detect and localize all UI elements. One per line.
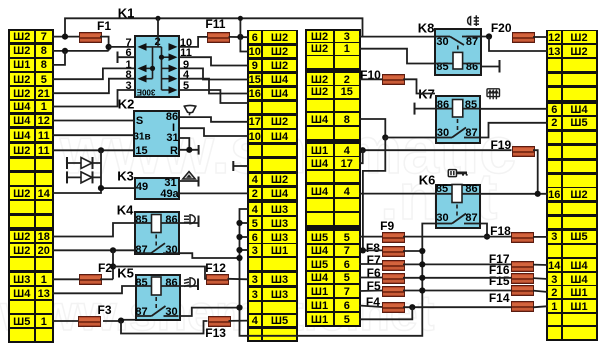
wire K1 pin6 stub <box>118 56 135 58</box>
relay K2 label <box>118 97 135 112</box>
fuse F14 <box>511 301 534 312</box>
Ш-mid-right row pin Ш1 4 <box>307 144 333 156</box>
relay K3 box <box>134 177 180 201</box>
Ш-right row pin 2 Ш1 <box>548 286 561 298</box>
fuse F12 label <box>205 261 226 275</box>
wire K7-85 to 6Ш4 <box>481 108 548 110</box>
K1 pin label 3 <box>125 80 131 92</box>
fuse F15 label <box>489 274 510 288</box>
junction riser/F7 <box>419 261 425 267</box>
wire K5-87 feed <box>121 319 136 321</box>
Ш-left row pin Ш4 13 <box>10 287 34 299</box>
diode D2 <box>67 171 101 183</box>
Ш-mid-left row pin 9 Ш2 <box>249 60 262 72</box>
Ш-mid-right row pin Ш4 17 <box>307 157 333 169</box>
wire F14 out to 1Ш1 <box>533 306 548 307</box>
junction rail/F11 <box>238 16 243 21</box>
relay K7 coil <box>453 100 463 118</box>
Ш-left row pin Ш5 1 <box>10 315 34 327</box>
fuse F4 label <box>366 295 380 309</box>
wire Ш2-20 K4-87 wire <box>52 249 134 251</box>
wire Ш3-1 to F2 <box>52 278 79 280</box>
junction F11 node <box>237 34 243 40</box>
Ш-right row empty cell <box>548 175 561 187</box>
relay K1 box <box>134 35 180 98</box>
junction K1 left bus <box>150 66 155 71</box>
relay K6 label <box>419 173 436 188</box>
K5 pin label 87 <box>135 306 147 318</box>
wire F8 out <box>403 250 422 252</box>
wire Ш4-7 to F8 <box>359 249 382 251</box>
icon parking lights (K8) <box>468 15 479 26</box>
fuse F18 <box>511 232 534 243</box>
fuse F19 <box>512 146 535 157</box>
K7 pin label 86 <box>437 99 449 111</box>
Ш-left row pin Ш3 1 <box>10 273 34 285</box>
relay K6 box <box>435 184 481 229</box>
Ш-right row empty cell <box>548 245 561 257</box>
junction F12 feed node <box>110 263 116 269</box>
K2 pin label 15 <box>135 145 147 157</box>
Ш-left row pin Ш2 5 <box>10 73 34 85</box>
Ш-mid-right row empty cell <box>307 56 333 68</box>
wire K1-4 to 16Ш4 <box>180 79 249 94</box>
wire K2-31 down <box>180 138 189 150</box>
fuse F10 label <box>360 68 381 82</box>
Ш-mid-right row pin Ш5 5 <box>307 231 333 243</box>
wire F19 out <box>533 150 538 194</box>
K1 pin label 10 <box>180 37 192 49</box>
relay K8 coil <box>453 52 463 69</box>
wire F9 out to F18 <box>403 236 511 238</box>
Ш-mid-left row pin 6 Ш2 <box>249 31 262 43</box>
stub 4Ш2 row terminator <box>233 165 248 167</box>
terminator K1-6 stub <box>117 52 119 64</box>
Ш-mid-right row empty cell <box>307 199 333 211</box>
wire Ш2-14 to K3-49 <box>52 188 134 193</box>
wire Ш2-8 wire <box>52 50 109 52</box>
relay K5 coil-contact link <box>155 297 157 311</box>
relay K5 coil <box>152 277 162 295</box>
fuse F16 <box>511 273 534 284</box>
Ш-mid-left row pin 4 Ш3 <box>249 203 262 215</box>
wire bus tap 6Ш3 <box>240 236 249 238</box>
K4 pin label 85 <box>135 214 147 226</box>
diode bus vertical <box>100 150 102 188</box>
K4 pin label 86 <box>165 214 177 226</box>
terminator K8-86 terminator <box>499 60 501 73</box>
K2 pin label I <box>172 122 175 134</box>
wire K7-30 riser down <box>363 138 385 251</box>
terminator K5-86 terminator <box>197 279 199 291</box>
wire Ш2-1 to K8-85 <box>359 49 434 64</box>
relay K6 coil-contact link <box>456 205 458 217</box>
Ш-mid-left row pin 4 Ш5 <box>249 315 262 327</box>
junction riser/F6 <box>419 275 425 281</box>
wire Ш4-5 to F6 <box>359 277 382 279</box>
wire bus tap 5Ш3 <box>240 222 249 224</box>
Ш-left row empty cell <box>10 216 34 228</box>
Ш-left row empty cell <box>10 258 34 270</box>
Ш-mid-left row empty cell <box>249 258 262 270</box>
K1 pin label 4 <box>183 69 189 81</box>
Ш-right row empty cell <box>548 146 561 158</box>
K3 pin label 31 <box>164 177 176 189</box>
Ш-mid-left row pin 15 Ш4 <box>249 74 262 86</box>
wire F20 node to 13Ш2 <box>489 37 548 52</box>
fuse F1 <box>79 32 102 43</box>
wire K1-9 to 15Ш4 <box>180 68 249 79</box>
wire F13 out to 4Ш5 <box>229 320 249 322</box>
wire Ш2-21 to K1-8 <box>52 79 134 94</box>
junction K4-87/F2 node <box>110 247 116 253</box>
terminator K2 R terminator <box>198 145 200 155</box>
K7 pin label 30 <box>437 127 449 139</box>
Ш-left row pin Ш4 12 <box>10 115 34 127</box>
relay K6 coil <box>452 185 462 203</box>
K8 pin label 87 <box>466 36 478 48</box>
Ш-mid-right row pin Ш2 1 <box>307 43 333 55</box>
wire F5 out to F15 <box>403 290 511 292</box>
K3 pin label 49 <box>136 181 148 193</box>
fuse F2 <box>79 274 102 285</box>
icon wiper (K2) <box>184 105 196 115</box>
K5 pin label 85 <box>135 277 147 289</box>
Ш-mid-left row empty cell <box>249 329 262 341</box>
Ш-mid-right row empty cell <box>307 213 333 225</box>
junction riser/F5 <box>419 287 425 293</box>
junction Ш1-4 node <box>360 147 366 153</box>
wire F1 out to K1-7 <box>100 37 109 51</box>
junction diode bus bottom <box>98 185 104 191</box>
wire K4-86 stub <box>180 222 199 224</box>
K1 pin label 7 <box>125 37 131 49</box>
wire F4 out to F14 <box>403 306 511 308</box>
Ш-mid-left row pin 5 Ш3 <box>249 217 262 229</box>
wire F17 out to 14Ш4 <box>533 264 548 266</box>
junction bus/3Ш1 <box>236 247 242 253</box>
terminator 4Ш2 stub terminator <box>232 161 234 171</box>
Ш-left row pin Ш2 20 <box>10 244 34 256</box>
Ш-mid-left row pin 3 Ш3 <box>249 288 262 300</box>
wire F13 feed loop <box>121 321 208 334</box>
relay K5 contact <box>137 306 179 316</box>
Ш-right row empty cell <box>548 314 561 326</box>
wire Ш1-4 to F19 <box>359 149 512 151</box>
K1 pin label 5 <box>183 80 189 92</box>
relay K2 box <box>133 110 180 157</box>
fuse F6 <box>382 273 405 284</box>
fuse F20 label <box>491 21 512 35</box>
junction Ш2-8 node <box>62 48 68 54</box>
K5 pin label 86 <box>165 277 177 289</box>
Ш-left row pin Ш2 11 <box>10 144 34 156</box>
fuse F3 <box>78 316 101 327</box>
wire K3-49а to 2Ш4 <box>180 192 249 194</box>
Ш-left row pin Ш4 1 <box>10 101 34 113</box>
fuse F17 <box>511 261 534 272</box>
wire F15 out to 2Ш1 <box>533 291 548 292</box>
wire F7 row to F17 <box>359 263 382 265</box>
wire Ш2-5 to K1-1 <box>52 68 134 79</box>
relay K1 type text 300E <box>137 88 156 97</box>
Ш-mid-right row pin Ш4 5 <box>307 272 333 284</box>
junction Ш2-7/rail <box>62 34 68 40</box>
Ш-left row empty cell <box>10 301 34 313</box>
connector column Ш-left <box>8 29 54 344</box>
Ш-right row pin 3 Ш5 <box>548 231 561 243</box>
Ш-mid-left row empty cell <box>249 302 262 314</box>
Ш-mid-left row pin 10 Ш4 <box>249 130 262 142</box>
wire F7 out to F17 <box>403 263 511 265</box>
wire Ш1-8 link <box>52 51 65 65</box>
Ш-mid-left row empty cell <box>249 102 262 114</box>
icon low beam (K5) <box>184 278 195 287</box>
fuse F10 <box>382 74 405 85</box>
K6 pin label 30 <box>436 212 448 224</box>
wire F16 out to 3Ш4 <box>533 277 548 280</box>
fuse F5 <box>382 286 405 297</box>
icon hazard triangle (K3) <box>183 172 196 180</box>
Ш-mid-right row pin Ш1 5 <box>307 313 333 325</box>
Ш-mid-right row empty cell <box>307 127 333 139</box>
Ш-mid-right row pin Ш4 4 <box>307 185 333 197</box>
diode D1 <box>67 157 101 169</box>
wire Ш4-12 to K2-S <box>52 120 133 122</box>
relay K7 coil-contact link <box>457 119 459 131</box>
relay K1 label <box>118 5 135 20</box>
Ш-right row pin 3 Ш4 <box>548 273 561 285</box>
Ш-mid-left row pin 4 Ш2 <box>249 174 262 186</box>
Ш-left row pin Ш4 11 <box>10 129 34 141</box>
relay K4 label <box>117 203 134 218</box>
wire top rail K1 net <box>65 18 363 36</box>
junction F3 node <box>118 318 124 324</box>
K6 pin label 87 <box>465 212 477 224</box>
K6 pin label 85 <box>436 183 448 195</box>
relay K8 box <box>434 28 482 76</box>
Ш-left row pin Ш2 14 <box>10 187 34 199</box>
relay K7 contact <box>437 128 479 138</box>
wire Ш2-18 to K4-85 <box>52 223 134 237</box>
wire F4 node to Ш1-5 <box>359 307 412 319</box>
junction Ш4-7/riser node <box>360 247 366 253</box>
fuse F7 <box>382 260 405 271</box>
Ш-left row empty cell <box>10 201 34 213</box>
Ш-right row pin 2 Ш5 <box>548 117 561 129</box>
Ш-mid-left row pin 10 Ш2 <box>249 46 262 58</box>
fuse F8 <box>382 246 405 257</box>
wire middle bus <box>240 209 436 336</box>
fuse F15 <box>511 285 534 296</box>
Ш-mid-left row pin 3 Ш1 <box>249 244 262 256</box>
wire Ш5-1 to F3 <box>52 320 78 322</box>
wire K1-2 riser <box>157 18 159 35</box>
Ш-mid-left row pin 2 Ш4 <box>249 188 262 200</box>
terminator K3-31 terminator <box>198 177 200 187</box>
wire F20 out to 12Ш2 <box>533 36 548 38</box>
junction diode bus top <box>98 147 104 153</box>
wire K2-R stub <box>180 149 199 151</box>
wire K6-86 to 16Ш2 <box>481 193 548 195</box>
junction F19/K6-86 node <box>535 191 541 197</box>
fuse F13 <box>208 316 231 327</box>
wire Ш4-13 to K5-85 <box>52 286 135 293</box>
fuse F7 label <box>367 253 381 267</box>
terminator K4-86 terminator <box>198 216 200 228</box>
wire K7-87 to 2Ш5 <box>481 123 548 138</box>
F2 feed bus <box>112 250 114 279</box>
relay K4 contact <box>136 243 178 253</box>
junction K1 right bus <box>159 55 164 60</box>
wire K7-30 wire <box>385 137 435 139</box>
K8 pin label 30 <box>436 36 448 48</box>
Ш-mid-left row pin 17 Ш2 <box>249 116 262 128</box>
fuse F18 label <box>490 224 511 238</box>
K4 pin label 30 <box>165 244 177 256</box>
Ш-right row pin 13 Ш2 <box>548 45 561 57</box>
fuse F9 label <box>380 219 394 233</box>
junction rail/K1-2 <box>155 16 160 21</box>
relay K8 contact <box>436 37 480 46</box>
Ш-mid-left row pin 6 Ш3 <box>249 231 262 243</box>
Ш-right row empty cell <box>548 88 561 100</box>
fuse F3 label <box>97 303 111 317</box>
wire Ш1-7 to F5 <box>359 290 382 293</box>
fuse F9 <box>382 232 405 243</box>
wire bus tap 3Ш1 <box>240 249 249 251</box>
wire Ш5-5 to F9 <box>359 236 382 238</box>
Ш-right row pin 12 Ш2 <box>548 31 561 43</box>
Ш-mid-right row pin Ш2 3 <box>307 31 333 43</box>
Ш-left row pin Ш2 18 <box>10 231 34 243</box>
fuse F2 label <box>98 261 112 275</box>
junction bus/5Ш3 <box>236 220 242 226</box>
Ш-left row empty cell <box>10 329 34 341</box>
Ш-mid-left row empty cell <box>249 159 262 171</box>
junction riser/F8 <box>419 248 425 254</box>
wire K6-87 down <box>481 224 487 237</box>
wire Ш4-11 to K2-31в <box>52 134 133 136</box>
junction bus/6Ш3 <box>236 234 242 240</box>
K1 pin label 8 <box>125 69 131 81</box>
wire F12 feed <box>113 267 206 279</box>
wire Ш2-11 to K2-15 <box>52 149 133 151</box>
K1 arrows <box>138 43 147 51</box>
wire K1-5 wire <box>180 90 249 103</box>
K2 pin label 31 <box>166 132 178 144</box>
relay K5 label <box>117 265 134 280</box>
connector column Ш-mid-left <box>247 30 299 343</box>
Ш-left row pin Ш2 7 <box>10 31 34 43</box>
wire Ш4-1 to K1-3 <box>52 90 134 107</box>
fuse F12 <box>206 274 229 285</box>
wire K7-86 stub <box>415 108 436 110</box>
relay K7 label <box>418 87 435 102</box>
Ш-right row pin 14 Ш4 <box>548 259 561 271</box>
Ш-right row empty cell <box>548 203 561 215</box>
fuse F14 label <box>489 291 510 305</box>
relay K5 box <box>135 274 181 322</box>
junction bus/K4-30 <box>236 255 242 261</box>
wire Ш1-6 to F4 <box>359 306 382 308</box>
K2 pin label R <box>170 145 178 157</box>
relay K1 internal contacts <box>146 35 169 90</box>
junction F1/K1-7 node <box>106 44 112 50</box>
K8 pin label 85 <box>436 61 448 73</box>
fuse F8 label <box>366 241 380 255</box>
wire F10 out to K7 <box>403 79 435 93</box>
Ш-mid-right row pin Ш1 7 <box>307 285 333 297</box>
relay K4 box <box>134 211 180 255</box>
K7 pin label 85 <box>465 99 477 111</box>
K1 pin label 2 <box>154 36 160 48</box>
Ш-right row pin 1 Ш1 <box>548 300 561 312</box>
Ш-mid-left row pin 16 Ш4 <box>249 88 262 100</box>
K1 pin label 11 <box>180 47 192 59</box>
fuse F1 label <box>97 19 111 33</box>
junction K2 31/R node <box>186 147 192 153</box>
wire K8-86 stub <box>482 66 500 68</box>
wire K2-86 to 17Ш2 <box>180 117 249 122</box>
wire F11 to 10Ш2 <box>240 37 248 52</box>
Ш-left row empty cell <box>10 173 34 185</box>
Ш-right row empty cell <box>548 132 561 144</box>
wire F3 out <box>103 320 121 322</box>
Ш-left row pin Ш1 8 <box>10 59 34 71</box>
Ш-mid-right row pin Ш4 8 <box>307 113 333 125</box>
relay K8 label <box>418 21 435 36</box>
Ш-right row empty cell <box>548 74 561 86</box>
K2 pin label 31в <box>133 132 150 143</box>
junction K7-30 node <box>382 134 388 140</box>
relay K4 coil-contact link <box>155 235 157 248</box>
junction K6-87/F9 node <box>484 234 490 240</box>
terminator K7-86 terminator <box>414 103 416 115</box>
Ш-mid-right row pin Ш2 15 <box>307 86 333 98</box>
Ш-left row empty cell <box>10 159 34 171</box>
wire Ш4-8 to K7-30 <box>359 119 385 138</box>
wire F2 out <box>100 278 113 280</box>
junction F4 node <box>409 304 415 310</box>
Ш-mid-left row empty cell <box>249 145 262 157</box>
K2 pin label 86 <box>166 111 178 123</box>
icon high beam (K4) <box>184 215 195 224</box>
wire Ш2-7 to F1 <box>52 36 79 38</box>
K7 pin label 87 <box>465 127 477 139</box>
Ш-mid-right row pin Ш4 7 <box>307 245 333 257</box>
wire F12 out to 3Ш3 <box>228 278 249 281</box>
wire Ш2-2 to F10 <box>359 78 382 80</box>
fuse F5 label <box>367 279 381 293</box>
wire F6 out to F16 <box>403 277 511 279</box>
fuse F4 <box>382 302 405 313</box>
relay K7 box <box>435 95 481 145</box>
wire Ш2-3 to K8-30 <box>359 36 434 38</box>
K2 pin label S <box>136 115 143 127</box>
Ш-right row pin 16 Ш2 <box>548 188 561 200</box>
wire Ш4-4 to K6-85 <box>359 193 435 195</box>
Ш-right row empty cell <box>548 161 561 173</box>
Ш-right row empty cell <box>548 217 561 229</box>
relay K6 contact <box>437 214 479 224</box>
wire F11 out <box>229 36 249 38</box>
fuse F11 label <box>205 17 225 31</box>
K4 pin label 87 <box>135 244 147 256</box>
wire K2-I to 10Ш4 <box>180 128 249 136</box>
Ш-mid-left row pin 3 Ш3 <box>249 273 262 285</box>
wire K5-30 to bus <box>181 308 240 316</box>
